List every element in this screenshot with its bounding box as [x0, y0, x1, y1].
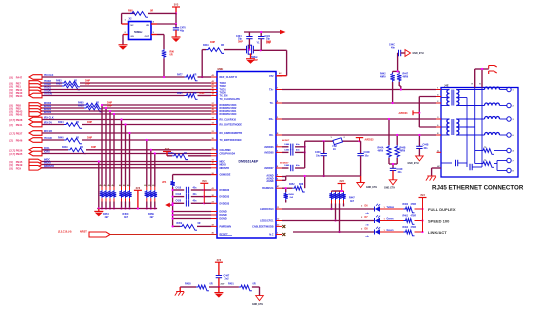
svg-text:R458: R458: [289, 193, 295, 196]
capacitor C434 DNP: [236, 32, 253, 51]
label top pins: [472, 84, 482, 86]
svg-text:PB42: PB42: [16, 113, 23, 117]
wire LED drop 3: [338, 204, 340, 234]
svg-text:PB36: PB36: [16, 149, 23, 153]
wire/pin IRX DV: [10, 121, 212, 128]
svg-text:0R: 0R: [253, 283, 256, 286]
strap drop wires: [98, 104, 156, 209]
label R454 4k7: [103, 213, 109, 219]
svg-text:0R: 0R: [198, 223, 201, 225]
svg-text:R455: R455: [185, 283, 191, 286]
svg-text:CRS/PHYAD4: CRS/PHYAD4: [220, 153, 236, 156]
resistor R98: [128, 10, 153, 18]
choke T2a: [485, 117, 500, 119]
svg-text:2n2: 2n2: [225, 277, 230, 280]
wire/pin IRXD3: [10, 101, 212, 108]
resistor R44A 49R9: [378, 145, 392, 158]
svg-text:SPEED 100: SPEED 100: [428, 218, 450, 223]
svg-text:49R9: 49R9: [400, 150, 406, 153]
svg-text:[2]: [2]: [10, 123, 13, 127]
pin NRST: [89, 232, 110, 237]
svg-text:4k7: 4k7: [150, 216, 155, 219]
resistor R456: [168, 152, 188, 160]
svg-text:AGND: AGND: [266, 180, 273, 183]
svg-text:LINK/ACT: LINK/ACT: [428, 230, 447, 235]
svg-text:40p: 40p: [180, 29, 185, 32]
wire 3V3 rail to C470: [175, 24, 177, 28]
wire osc pin3: [151, 35, 164, 50]
wire/pin ITX EN: [10, 92, 212, 99]
svg-text:R451: R451: [228, 283, 234, 286]
ferrite bead FB2: [331, 137, 346, 151]
svg-text:FULL DUPLEX: FULL DUPLEX: [428, 207, 456, 212]
IC left pin stubs: [211, 74, 217, 235]
wire AVDD rail: [305, 140, 360, 142]
oscillator X2 50MHz: [125, 18, 155, 40]
svg-text:R98: R98: [128, 10, 133, 13]
wire/pin IRXD2: [10, 104, 212, 111]
svg-text:RJ45 ETHERNET CONNECTOR: RJ45 ETHERNET CONNECTOR: [432, 185, 524, 192]
ground (crystal): [246, 53, 255, 63]
wire osc pin4: [151, 23, 176, 25]
wire bottom left: [180, 286, 196, 288]
svg-text:DVDD33: DVDD33: [220, 189, 230, 192]
IC left pin labels: [220, 76, 243, 237]
wire center-tap rail: [419, 97, 441, 128]
svg-text:DNP: DNP: [107, 104, 112, 107]
svg-text:GND_ETH: GND_ETH: [413, 53, 424, 55]
svg-text:[9]: [9]: [10, 113, 13, 117]
svg-text:3V3: 3V3: [339, 180, 344, 183]
capacitor C470: [173, 27, 187, 33]
wire shield: [432, 168, 441, 176]
svg-text:[2,7]: [2,7]: [10, 152, 15, 156]
resistor 75R a: [475, 147, 507, 155]
svg-text:R483: R483: [56, 79, 62, 82]
wire/pin IMDC: [10, 159, 212, 165]
svg-text:GND_ETH: GND_ETH: [366, 187, 377, 189]
svg-text:PB35: PB35: [16, 152, 23, 156]
svg-text:49R9: 49R9: [380, 76, 386, 79]
wire/pin ITXD3: [10, 79, 212, 86]
resistor R451: [228, 283, 256, 291]
svg-text:[2,7]: [2,7]: [10, 132, 15, 136]
svg-text:0R: 0R: [80, 147, 83, 149]
svg-text:40n: 40n: [398, 171, 403, 174]
wire/pin ITX ER: [10, 136, 212, 143]
strap bus wire: [97, 207, 157, 209]
ground (bottom node): [214, 287, 223, 298]
junction: [323, 140, 325, 142]
wire RJ45 CT top: [475, 69, 489, 88]
wire LED drop 4: [343, 204, 345, 207]
rail A wire: [172, 187, 174, 226]
power 3V3 (strap bus): [134, 187, 142, 210]
svg-text:20p: 20p: [266, 39, 271, 41]
svg-text:REF_CLK/XT D: REF_CLK/XT D: [220, 76, 238, 79]
junction: [201, 76, 203, 78]
wire/pin IRXD1: [10, 108, 212, 114]
wire node to R451: [219, 286, 239, 288]
label RJ45: [432, 185, 524, 192]
resistor R452 6k8: [289, 183, 305, 192]
svg-text:[9]: [9]: [10, 85, 13, 89]
wire RJ45 internal verticals: [475, 88, 482, 168]
svg-text:R461: R461: [403, 214, 409, 217]
wire osc pin2: [123, 35, 128, 45]
svg-text:R462: R462: [403, 226, 409, 229]
wire RX+ row: [282, 118, 441, 120]
ground (osc pin2): [119, 45, 128, 50]
junction: [175, 23, 177, 25]
wire RX term drops: [388, 118, 398, 145]
wire R451 right: [252, 287, 260, 296]
svg-text:GN: GN: [131, 36, 135, 38]
svg-text:CABLEDET/MODB: CABLEDET/MODB: [252, 225, 274, 228]
svg-text:R44B: R44B: [400, 147, 406, 150]
svg-text:(2,3,C10,L4): (2,3,C10,L4): [58, 230, 72, 233]
svg-text:RX_ER/RXD4/RPTR: RX_ER/RXD4/RPTR: [220, 132, 243, 135]
IC right pin labels: [252, 75, 274, 237]
wire LED drop 1: [330, 204, 332, 211]
svg-text:40n: 40n: [296, 164, 300, 167]
svg-text:R440: R440: [58, 136, 64, 139]
resistor R96: [162, 49, 175, 58]
svg-text:49R9: 49R9: [378, 150, 384, 153]
svg-text:Yellow: Yellow: [387, 206, 395, 209]
svg-text:R449: R449: [62, 146, 68, 149]
capacitor C44D: [390, 168, 403, 180]
svg-text:4k7: 4k7: [105, 216, 110, 219]
IC name DM9161AEP: [239, 160, 260, 164]
svg-text:M9E: M9E: [218, 67, 224, 71]
svg-text:2A: 2A: [333, 148, 336, 151]
svg-text:C446: C446: [284, 143, 290, 146]
wire AGND rail: [286, 175, 361, 177]
ground GND_ETH (bottom): [252, 296, 263, 306]
label R447 4k7: [349, 197, 355, 204]
wire RX term join: [389, 158, 397, 168]
wire R455 to node: [209, 286, 219, 288]
svg-text:40n: 40n: [296, 143, 300, 146]
svg-text:TX_CLK/ISOLATE: TX_CLK/ISOLATE: [220, 98, 241, 101]
resistor R442 49R9: [380, 71, 395, 104]
svg-text:GND_ETH: GND_ETH: [384, 187, 395, 189]
svg-text:PA47: PA47: [16, 76, 23, 80]
svg-text:0R: 0R: [221, 44, 224, 47]
wire/pin IMDINTR: [10, 165, 212, 171]
svg-text:NRST: NRST: [80, 230, 87, 233]
wire osc feedback top: [122, 13, 176, 24]
no-connect X (N.C): [282, 233, 285, 236]
svg-text:0R: 0R: [170, 54, 173, 57]
power 3V3 (oscillator): [172, 4, 180, 14]
svg-text:DGND: DGND: [220, 218, 227, 221]
svg-text:470R: 470R: [411, 226, 417, 229]
svg-text:0R: 0R: [210, 283, 213, 286]
power 3V3 (LED rail): [419, 194, 427, 232]
capacitor C440 10u: [315, 141, 327, 177]
capacitor C44N 10u: [357, 141, 369, 176]
choke T1a: [485, 87, 500, 89]
svg-text:3V3: 3V3: [420, 194, 425, 197]
svg-text:RX+: RX+: [269, 118, 274, 121]
svg-text:PB1: PB1: [16, 85, 22, 89]
wire LED pull top bar: [332, 190, 344, 192]
wire OSMODE: [173, 175, 217, 180]
ground GND_ETH (RX term): [384, 180, 397, 190]
svg-text:DVDD33: DVDD33: [220, 196, 230, 199]
junction: [175, 12, 177, 14]
wire/pin ICRS: [10, 151, 212, 157]
svg-text:DNP: DNP: [91, 146, 96, 149]
svg-text:DNP: DNP: [87, 121, 92, 124]
wire AGND stubs: [282, 176, 286, 180]
svg-text:DVDD33: DVDD33: [220, 202, 230, 205]
svg-text:AVDD07: AVDD07: [280, 162, 289, 165]
svg-text:Green: Green: [387, 229, 394, 232]
junction bottom node: [218, 286, 220, 288]
svg-text:R408: R408: [78, 104, 84, 107]
svg-text:470R: 470R: [411, 214, 417, 217]
LED D6 row: [282, 203, 456, 215]
svg-text:40n: 40n: [391, 47, 396, 50]
svg-text:AVDD33: AVDD33: [365, 138, 375, 141]
svg-text:3V3: 3V3: [217, 259, 222, 262]
svg-text:[9]: [9]: [10, 76, 13, 80]
svg-text:DNP: DNP: [210, 41, 215, 44]
wire BGRES: [282, 187, 292, 189]
svg-text:GND_ETH: GND_ETH: [408, 163, 419, 165]
ground (strap bus): [94, 209, 103, 217]
capacitor C44B: [416, 134, 429, 156]
svg-text:PDX: PDX: [16, 167, 22, 171]
junction: [481, 68, 483, 70]
resistor R459: [177, 222, 201, 230]
svg-text:N.C: N.C: [269, 234, 273, 237]
svg-text:LED1/CFG1: LED1/CFG1: [260, 220, 274, 223]
resistor R447 49R9: [397, 71, 409, 90]
resistors R447 4k7 x4: [329, 191, 345, 204]
svg-text:R405: R405: [78, 101, 84, 104]
svg-text:C440: C440: [315, 151, 321, 154]
svg-text:PB38: PB38: [16, 118, 23, 122]
wire R459 to IC: [197, 225, 211, 227]
power 3V3 (LED pulls): [338, 180, 346, 191]
ground arrow (DGND): [165, 203, 174, 208]
svg-text:0R: 0R: [96, 105, 99, 107]
wire/pin ITX CLK: [10, 73, 212, 80]
svg-text:3V3: 3V3: [165, 148, 170, 151]
wire XT2 stub: [277, 72, 287, 76]
wire BGRES join: [304, 175, 306, 188]
svg-text:R442: R442: [380, 72, 386, 75]
svg-text:2kV: 2kV: [221, 284, 225, 286]
svg-text:AVDD06: AVDD06: [264, 146, 274, 149]
svg-text:C418: C418: [176, 186, 182, 189]
power 3V3 (DVDD rail): [200, 180, 208, 203]
svg-text:40n: 40n: [296, 149, 300, 152]
svg-text:C442: C442: [284, 149, 290, 152]
svg-text:C44B: C44B: [423, 144, 429, 147]
svg-text:DM9161AEP: DM9161AEP: [239, 160, 260, 164]
wire PWRDWN: [172, 225, 181, 227]
power flag (RJ45 top): [489, 66, 497, 75]
power AVDD33 flag (CT): [399, 110, 421, 115]
svg-text:3V3: 3V3: [174, 4, 179, 7]
svg-text:R424: R424: [58, 121, 64, 124]
svg-text:RX_CLK/RX10: RX_CLK/RX10: [220, 119, 237, 122]
svg-text:0R: 0R: [184, 153, 187, 155]
svg-text:50MHz: 50MHz: [134, 30, 143, 34]
label NRST: [58, 230, 87, 233]
wire/pin ITXD1: [10, 87, 212, 93]
svg-text:JP4: JP4: [162, 181, 167, 184]
svg-text:DNP: DNP: [85, 82, 90, 85]
wire/pin ITXD2: [10, 82, 212, 89]
no-connect X (CABLEDET): [282, 225, 285, 228]
resistor R431 DNP: [203, 41, 224, 53]
svg-text:PB44: PB44: [16, 94, 23, 98]
svg-text:AVDD07: AVDD07: [264, 167, 274, 170]
svg-text:R447: R447: [403, 72, 409, 75]
svg-text:MDINTR: MDINTR: [220, 167, 230, 170]
svg-text:AVDD08: AVDD08: [264, 151, 274, 154]
svg-text:10u: 10u: [365, 155, 370, 157]
svg-text:10u: 10u: [316, 155, 321, 157]
inductor JP4: [162, 180, 175, 187]
svg-text:RX-: RX-: [269, 134, 273, 137]
svg-text:0R: 0R: [74, 83, 77, 85]
wire R96 to REF_CLK: [163, 59, 165, 78]
svg-text:R477: R477: [177, 73, 183, 76]
wire R456 to IC: [188, 155, 211, 157]
svg-text:0R: 0R: [194, 74, 197, 76]
svg-text:3V3: 3V3: [136, 187, 141, 190]
power 3V3 (MDINTR pull): [163, 148, 172, 156]
LED D7 row: [282, 214, 450, 226]
svg-text:COL/RMII: COL/RMII: [220, 149, 231, 152]
wire/pin IRX CLK: [10, 117, 212, 123]
svg-text:R452: R452: [289, 183, 295, 186]
svg-text:C44C: C44C: [389, 44, 395, 47]
svg-text:4k7: 4k7: [350, 200, 355, 203]
svg-text:XT2: XT2: [269, 75, 274, 78]
svg-text:R460: R460: [403, 203, 409, 206]
wire/pin ITXD0: [10, 90, 212, 96]
svg-text:PB41: PB41: [16, 123, 23, 127]
capacitor internal b: [467, 163, 482, 170]
svg-text:[9]: [9]: [10, 94, 13, 98]
capacitors C458/C460/C462 DVDD: [172, 186, 212, 206]
svg-text:DNP: DNP: [266, 41, 271, 43]
wire/pin IMDIO: [10, 162, 212, 168]
svg-text:DNP: DNP: [87, 136, 92, 139]
svg-text:R44A: R44A: [378, 147, 384, 150]
wire/pin IRXD0: [10, 111, 212, 117]
IC U9 DM9161AEP outline: [217, 72, 276, 239]
svg-text:20p: 20p: [238, 39, 243, 41]
crystal Y1 25MHz DNP: [247, 42, 272, 63]
RJ45 signal pin circles: [500, 87, 515, 137]
svg-text:FB2: FB2: [333, 146, 338, 148]
svg-text:0R: 0R: [150, 10, 153, 13]
svg-text:RXD0/PHYAD0: RXD0/PHYAD0: [220, 113, 237, 116]
label R45C 4k7: [123, 213, 129, 219]
svg-text:PWRDWN: PWRDWN: [220, 225, 232, 228]
svg-text:[9]: [9]: [10, 167, 13, 171]
svg-text:49R9: 49R9: [403, 76, 409, 79]
choke T1b: [485, 103, 500, 105]
svg-text:3V3: 3V3: [202, 180, 207, 183]
svg-text:[2]: [2]: [10, 139, 13, 143]
resistor 75R b: [481, 160, 507, 171]
wire/pin IRX ER: [10, 130, 212, 136]
svg-text:C428: C428: [176, 200, 182, 203]
svg-text:AVDDT: AVDDT: [282, 139, 290, 142]
label R45E 4k7: [148, 213, 154, 219]
RJ45 unused pin circles: [507, 148, 515, 172]
svg-text:TX_ER/TXD4/FXEN: TX_ER/TXD4/FXEN: [220, 139, 242, 142]
capacitor C431 DNP: [258, 31, 271, 50]
svg-text:RX_DV/TESTMODE: RX_DV/TESTMODE: [220, 124, 243, 127]
wire TX+ row: [282, 89, 441, 91]
junction: [260, 49, 262, 51]
svg-text:R456: R456: [168, 152, 174, 155]
svg-text:470R: 470R: [411, 203, 417, 206]
svg-text:4k7: 4k7: [124, 216, 129, 219]
wire crystal drop to XT: [201, 50, 203, 77]
wire LED drop 2: [334, 204, 336, 222]
wire TX term top bar: [393, 53, 400, 73]
capacitors AVDD decouple: [282, 143, 306, 156]
svg-text:PB46: PB46: [16, 139, 23, 143]
wire DGND rows: [172, 210, 212, 219]
resistor R44B 49R9: [395, 145, 406, 158]
capacitor AVDD7: [280, 139, 305, 171]
wire C447 to node: [218, 278, 220, 287]
svg-text:DNP: DNP: [200, 92, 205, 95]
svg-text:C418: C418: [176, 193, 182, 196]
svg-text:LED0/CFG0: LED0/CFG0: [260, 208, 274, 211]
power AVDD33 flag: [356, 138, 374, 143]
ground GND_ETH (AVDD): [357, 176, 378, 189]
wire NRST: [110, 234, 217, 236]
transformer T2: [441, 119, 459, 135]
resistor R458 vertical: [284, 187, 295, 202]
svg-text:J4E: J4E: [444, 83, 449, 87]
svg-text:0R: 0R: [76, 122, 79, 124]
svg-text:40n: 40n: [193, 193, 198, 196]
wire 75R join: [475, 127, 481, 164]
wire T2 secondary: [456, 119, 484, 135]
svg-text:R459: R459: [177, 222, 183, 225]
power flag (load-cap rail): [280, 30, 286, 34]
rail AVDD vertical: [304, 141, 306, 168]
svg-text:6R8: 6R8: [299, 184, 304, 186]
svg-text:40n: 40n: [424, 147, 429, 150]
power 3V3 (bottom): [215, 259, 223, 276]
LED D8 row: [293, 226, 447, 238]
svg-text:OUT: OUT: [145, 36, 150, 38]
transformer T1: [441, 90, 459, 106]
capacitor C447: [216, 274, 230, 285]
svg-text:Green: Green: [387, 218, 394, 221]
svg-text:DNP: DNP: [238, 41, 243, 43]
capacitor C44C: [389, 44, 405, 57]
svg-text:R431: R431: [203, 44, 209, 47]
svg-text:0R: 0R: [194, 93, 197, 95]
